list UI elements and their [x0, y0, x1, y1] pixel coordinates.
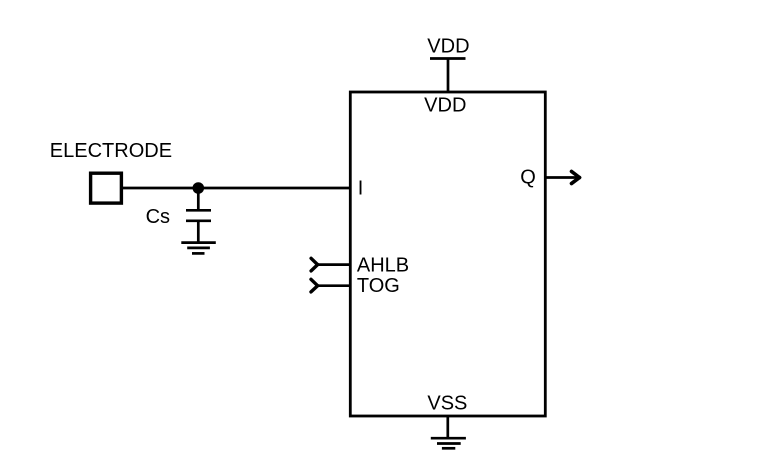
- svg-text:VDD: VDD: [427, 35, 469, 57]
- svg-text:ELECTRODE: ELECTRODE: [50, 140, 172, 162]
- VDD power symbol: [430, 59, 466, 93]
- pin AHLB wire: [318, 263, 351, 266]
- svg-text:Q: Q: [520, 166, 536, 188]
- wire electrode to pin I: [123, 187, 350, 190]
- TOG input arrow: [311, 279, 318, 292]
- svg-text:VDD: VDD: [424, 94, 466, 116]
- svg-text:Cs: Cs: [146, 206, 170, 228]
- ground (below Cs): [181, 243, 216, 254]
- ground (below VSS): [431, 438, 466, 448]
- svg-text:AHLB: AHLB: [357, 255, 409, 277]
- electrode pad: [91, 173, 122, 203]
- capacitor Cs: [186, 188, 211, 243]
- svg-text:I: I: [358, 178, 364, 200]
- junction node: [193, 182, 205, 194]
- pin Q output wire: [545, 176, 576, 179]
- pin TOG wire: [318, 284, 351, 287]
- VSS ground stem: [446, 416, 449, 438]
- AHLB input arrow: [311, 258, 318, 271]
- svg-text:TOG: TOG: [357, 275, 400, 297]
- IC body U1: [350, 92, 545, 416]
- svg-text:VSS: VSS: [427, 392, 467, 414]
- Q output arrow: [572, 171, 580, 183]
